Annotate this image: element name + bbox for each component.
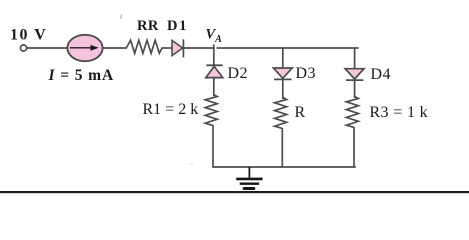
resistor R1 (vertical zigzag) — [205, 95, 217, 126]
wire RR to D1 — [162, 47, 173, 49]
svg-text:D4: D4 — [371, 66, 391, 83]
top rail wire (node A to branch 3) — [217, 47, 359, 49]
resistor R (vertical zigzag) — [275, 98, 287, 129]
wire D4 to R3 — [354, 80, 356, 98]
diode D3 (pointing down, cathode bar below) — [273, 68, 292, 79]
wire D2 to R1 — [213, 78, 215, 96]
diode D1 (pointing right) — [172, 39, 183, 57]
branch 1 wire: node A down to D2 — [213, 48, 215, 65]
stray artifact — [189, 163, 193, 165]
terminal (input port circle) — [20, 45, 26, 51]
svg-text:I = 5 mA: I = 5 mA — [48, 67, 115, 84]
wire R3 to bottom rail — [353, 127, 355, 167]
branch 2 wire: top rail down to D3 — [282, 48, 284, 68]
wire R to bottom rail — [281, 128, 283, 167]
resistor R3 (vertical zigzag) — [346, 97, 358, 128]
stray mark — [120, 15, 123, 20]
resistor RR (horizontal zigzag) — [127, 40, 163, 53]
svg-text:D2: D2 — [228, 65, 248, 82]
svg-text:R3 = 1 k: R3 = 1 k — [370, 104, 429, 121]
svg-text:10 V: 10 V — [10, 27, 47, 44]
diode D2 (pointing up, cathode bar on top) — [206, 65, 223, 77]
wire D3 to R — [282, 79, 284, 99]
svg-text:D1: D1 — [167, 18, 188, 34]
svg-text:RR: RR — [137, 18, 159, 34]
bottom rail wire — [212, 166, 356, 168]
node A tick — [213, 45, 215, 50]
wire current source to resistor RR — [103, 47, 128, 49]
ground — [236, 167, 262, 189]
svg-text:R1 = 2 k: R1 = 2 k — [143, 101, 199, 118]
svg-text:R: R — [295, 104, 306, 121]
wire R1 to bottom rail — [212, 125, 214, 167]
diode D4 (pointing down, cathode bar below) — [345, 69, 364, 80]
svg-text:D3: D3 — [296, 65, 316, 82]
wire D1 to node A — [184, 47, 215, 49]
page rule — [0, 191, 469, 193]
branch 3 wire: top rail down to D4 — [354, 48, 356, 69]
current source I1 (I = 5 mA) — [67, 35, 102, 61]
wire terminal to current source — [27, 47, 68, 49]
